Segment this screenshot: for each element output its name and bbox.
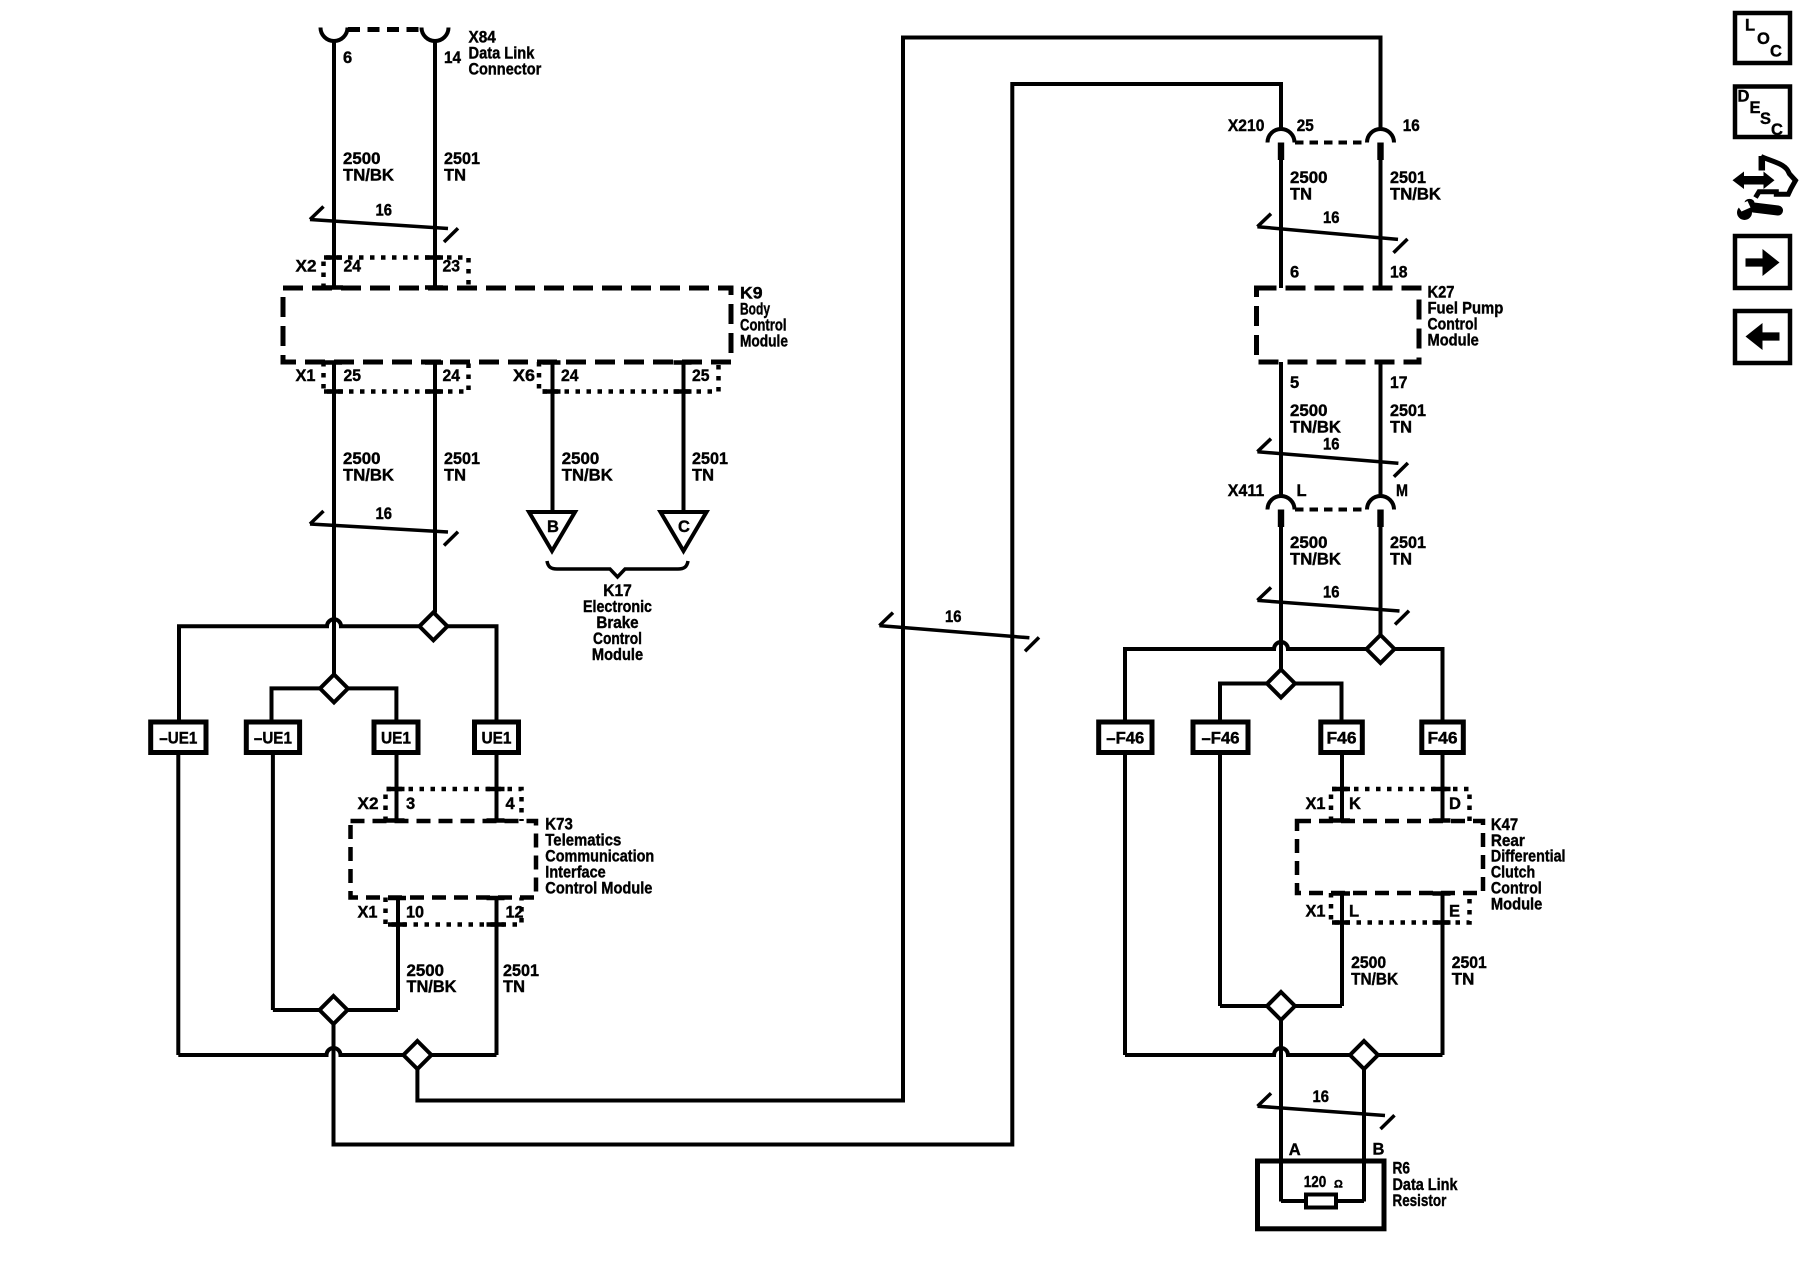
- svg-text:TN/BK: TN/BK: [1290, 419, 1341, 437]
- connector -UE1 box 1: [151, 722, 206, 753]
- wire 2501 TN from K73 X1 pin 12: [495, 898, 499, 1056]
- twisted pair symbol 16 middle: [879, 626, 1029, 638]
- wire 2500 TN/BK from K27 pin 5 to X411 L: [1279, 362, 1283, 496]
- svg-text:O: O: [1757, 30, 1770, 48]
- wire 2500 TN/BK from K9 X1 pin 25 to splice: [332, 362, 336, 675]
- module K47 Rear Differential Clutch Control Module dashed box: [1297, 821, 1483, 893]
- splice diamond on 2501 TN: [1350, 1041, 1378, 1069]
- svg-text:–UE1: –UE1: [254, 730, 292, 748]
- wire 2500 TN/BK from K47 pin L: [1340, 893, 1344, 1006]
- svg-text:X411: X411: [1228, 482, 1265, 500]
- svg-text:2501: 2501: [1452, 954, 1487, 972]
- wire 2501 TN from K47 pin E: [1441, 893, 1445, 1055]
- connector X210 arc pin 25: [1268, 129, 1295, 143]
- svg-text:120: 120: [1304, 1174, 1327, 1191]
- svg-text:–UE1: –UE1: [159, 730, 197, 748]
- connector F46 box 4: [1422, 722, 1464, 753]
- svg-text:E: E: [1750, 99, 1761, 117]
- svg-text:3: 3: [406, 795, 415, 813]
- splice diamond on 2500 TN/BK: [320, 996, 348, 1024]
- svg-text:E: E: [1449, 903, 1460, 921]
- module K73 Telematics Communication Interface Control Module dashed box: [351, 821, 537, 898]
- connector UE1 box 3: [374, 722, 418, 753]
- svg-text:X1: X1: [1306, 903, 1326, 921]
- svg-text:25: 25: [344, 367, 362, 385]
- svg-text:2500: 2500: [1290, 402, 1328, 420]
- svg-text:C: C: [1771, 121, 1783, 139]
- connector X411 arc pin L: [1268, 496, 1295, 510]
- wire from F46 box3 to K47 X1 pin K: [1340, 753, 1344, 822]
- svg-text:UE1: UE1: [381, 730, 411, 748]
- svg-text:24: 24: [443, 367, 461, 385]
- svg-text:25: 25: [692, 367, 710, 385]
- connector X210 dashed body: [1295, 141, 1367, 145]
- svg-text:24: 24: [561, 367, 579, 385]
- wire bus 2500 TN/BK lower horizontal: [273, 1008, 398, 1012]
- connector -F46 box 1: [1099, 722, 1152, 753]
- wire 2501 TN from K9 X6 pin 25 to K17 C: [682, 362, 686, 512]
- svg-text:X1: X1: [358, 904, 378, 922]
- connector X1 upper pin box of K47: [1331, 789, 1470, 821]
- svg-text:16: 16: [1323, 436, 1340, 454]
- twisted pair symbol 16 lower left: [310, 524, 448, 532]
- svg-text:X6: X6: [513, 367, 535, 385]
- svg-text:R6: R6: [1393, 1160, 1411, 1178]
- svg-text:–F46: –F46: [1106, 730, 1144, 748]
- svg-text:2500: 2500: [343, 150, 381, 168]
- wire from -F46 box1 down: [1123, 753, 1127, 1056]
- twisted pair symbol 16 right middle: [1257, 452, 1398, 464]
- svg-text:Control Module: Control Module: [545, 880, 652, 898]
- svg-text:TN/BK: TN/BK: [562, 467, 613, 485]
- svg-text:D: D: [1449, 795, 1461, 813]
- svg-text:X2: X2: [296, 258, 317, 276]
- svg-text:TN: TN: [444, 467, 466, 485]
- svg-text:S: S: [1760, 110, 1771, 128]
- svg-text:TN/BK: TN/BK: [343, 167, 394, 185]
- svg-text:TN/BK: TN/BK: [407, 978, 457, 996]
- svg-text:2501: 2501: [1390, 534, 1426, 552]
- svg-text:Module: Module: [1428, 332, 1479, 350]
- svg-text:2500: 2500: [1351, 954, 1386, 972]
- twisted pair symbol 16 right upper: [1257, 227, 1398, 240]
- connector UE1 box 4: [475, 722, 519, 753]
- wire 2501 TN trunk down and right: [417, 38, 1380, 1101]
- wire 2501 TN from K27 pin 17 to X411 M: [1379, 362, 1383, 496]
- wire from F46 box4 to K47 X1 pin D: [1441, 753, 1445, 822]
- svg-text:C: C: [1770, 43, 1782, 61]
- svg-text:TN/BK: TN/BK: [1351, 971, 1398, 989]
- connector X411 dashed body: [1295, 508, 1367, 512]
- svg-text:2500: 2500: [1290, 534, 1328, 552]
- svg-text:F46: F46: [1327, 730, 1357, 748]
- wire from -UE1 box1 down: [176, 753, 180, 1056]
- connector X2 pin box of K73: [386, 789, 522, 821]
- wire bus 2500 TN/BK right horizontal: [1220, 684, 1342, 723]
- connector F46 box 3: [1321, 722, 1363, 753]
- svg-text:Connector: Connector: [469, 61, 542, 79]
- svg-text:TN/BK: TN/BK: [1390, 186, 1441, 204]
- splice diamond on 2501 TN: [1367, 635, 1395, 663]
- svg-text:2501: 2501: [1390, 169, 1426, 187]
- module K27 Fuel Pump Control Module dashed box: [1257, 288, 1420, 362]
- wire bus 2500 TN/BK lower right horizontal: [1220, 1004, 1342, 1008]
- svg-text:TN: TN: [1290, 186, 1312, 204]
- wire from -F46 box2 down: [1218, 753, 1222, 1007]
- svg-text:6: 6: [1290, 264, 1299, 282]
- svg-text:2500: 2500: [562, 450, 600, 468]
- splice diamond on 2500 TN/BK: [320, 674, 348, 702]
- svg-text:TN/BK: TN/BK: [343, 467, 394, 485]
- wire 2500 TN from X210 pin 25 to K27 pin 6: [1279, 160, 1283, 288]
- icon LOC box: [1735, 13, 1790, 63]
- svg-text:L: L: [1349, 903, 1359, 921]
- connector X210 terminal tick pin 16: [1377, 143, 1383, 161]
- wire 2500 TN/BK to R6 pin A: [1279, 1020, 1283, 1202]
- wire 2501 TN from K9 X1 pin 24 to splice: [433, 362, 437, 613]
- brace for K17: [547, 561, 688, 577]
- svg-text:Ω: Ω: [1334, 1179, 1343, 1191]
- svg-text:2501: 2501: [1390, 402, 1426, 420]
- wire from UE1 box4 to K73 X2 pin 4: [495, 753, 499, 822]
- svg-text:L: L: [1297, 482, 1307, 500]
- svg-text:14: 14: [444, 49, 462, 67]
- svg-text:TN/BK: TN/BK: [1290, 551, 1341, 569]
- svg-text:5: 5: [1290, 374, 1299, 392]
- svg-text:TN: TN: [1390, 551, 1412, 569]
- svg-text:TN: TN: [1390, 419, 1412, 437]
- svg-text:17: 17: [1390, 374, 1408, 392]
- connector X84 dashed body: [348, 27, 421, 32]
- svg-text:Module: Module: [740, 333, 788, 351]
- connector X411 arc pin M: [1367, 496, 1394, 510]
- svg-text:K: K: [1349, 795, 1361, 813]
- wire from UE1 box3 to K73 X2 pin 3: [395, 753, 399, 822]
- svg-text:6: 6: [343, 49, 352, 67]
- connector X411 terminal tick pin M: [1377, 510, 1383, 528]
- svg-text:23: 23: [443, 258, 461, 276]
- wire 2500 TN/BK from K73 X1 pin 10: [396, 898, 400, 1011]
- wire 2501 TN from X411 M to splice: [1379, 527, 1383, 635]
- connector X84 cup pin 14: [422, 28, 449, 41]
- svg-text:16: 16: [945, 608, 962, 626]
- svg-text:2501: 2501: [444, 150, 480, 168]
- connector X210 terminal tick pin 25: [1278, 143, 1284, 161]
- svg-text:4: 4: [506, 795, 516, 813]
- svg-text:16: 16: [1323, 209, 1340, 227]
- wire 2501 TN from X84 pin 14 to K9 X2 pin 23: [433, 41, 437, 288]
- connector X84 cup pin 6: [321, 28, 348, 42]
- connector X411 terminal tick pin L: [1278, 510, 1284, 528]
- icon arrow left box: [1735, 311, 1790, 363]
- svg-text:2501: 2501: [444, 450, 480, 468]
- svg-text:Module: Module: [592, 646, 643, 664]
- wire bus 2500 TN/BK horizontal: [272, 688, 397, 722]
- splice diamond on 2500 TN/BK: [1267, 992, 1295, 1020]
- twisted pair symbol 16 right lower: [1257, 600, 1399, 611]
- svg-text:X1: X1: [1306, 795, 1326, 813]
- svg-text:–F46: –F46: [1202, 730, 1240, 748]
- terminal B triangle: [529, 512, 575, 551]
- svg-text:B: B: [1373, 1141, 1385, 1159]
- wire 2500 TN/BK from X411 L to splice: [1279, 527, 1283, 670]
- svg-text:B: B: [547, 518, 559, 536]
- svg-text:D: D: [1738, 88, 1750, 106]
- icon vehicle with double arrow and wrench: [1733, 172, 1775, 190]
- icon arrow right box: [1735, 236, 1790, 288]
- connector X1 pin box of K73: [386, 898, 522, 925]
- svg-text:X2: X2: [358, 795, 379, 813]
- wire 2501 TN/BK from X210 pin 16 to K27 pin 18: [1379, 160, 1383, 288]
- svg-text:F46: F46: [1428, 730, 1458, 748]
- wire bus 2501 TN lower right horizontal with hop: [1125, 1048, 1443, 1055]
- svg-text:TN: TN: [1452, 971, 1475, 989]
- twisted pair symbol 16 upper left: [310, 220, 448, 229]
- svg-text:2500: 2500: [343, 450, 381, 468]
- svg-text:2501: 2501: [692, 450, 728, 468]
- svg-text:16: 16: [1313, 1088, 1330, 1106]
- wire 2500 TN/BK trunk down and right: [334, 84, 1282, 1145]
- svg-text:A: A: [1289, 1141, 1301, 1159]
- svg-text:12: 12: [506, 904, 524, 922]
- svg-text:25: 25: [1297, 117, 1314, 135]
- svg-text:M: M: [1396, 482, 1408, 500]
- svg-text:16: 16: [376, 202, 393, 220]
- svg-text:X210: X210: [1228, 117, 1265, 135]
- svg-text:Resistor: Resistor: [1393, 1192, 1447, 1210]
- svg-text:X1: X1: [296, 367, 316, 385]
- svg-text:L: L: [1745, 17, 1755, 35]
- svg-text:16: 16: [1323, 584, 1340, 602]
- svg-text:TN: TN: [444, 167, 466, 185]
- module K9 Body Control Module dashed box: [283, 288, 731, 362]
- resistor R6 Data Link Resistor box: [1258, 1161, 1385, 1229]
- svg-text:10: 10: [406, 904, 424, 922]
- svg-text:16: 16: [376, 505, 393, 523]
- wire bus 2501 TN horizontal with hop over 2500: [179, 619, 497, 722]
- wire 2500 TN/BK from X84 pin 6 to K9 X2 pin 24: [332, 41, 336, 288]
- connector -UE1 box 2: [246, 722, 299, 753]
- svg-text:16: 16: [1403, 117, 1420, 135]
- connector X2 pin box of K9: [324, 258, 469, 289]
- svg-text:2500: 2500: [1290, 169, 1328, 187]
- connector X1 lower pin box of K47: [1331, 893, 1470, 923]
- svg-text:18: 18: [1390, 264, 1408, 282]
- splice diamond on 2501 TN: [403, 1041, 431, 1069]
- wire 2501 TN to R6 pin B: [1362, 1069, 1366, 1202]
- svg-text:TN: TN: [503, 978, 525, 996]
- wire 2500 TN/BK from K9 X6 pin 24 to K17 B: [551, 362, 555, 512]
- splice diamond on 2501 TN: [419, 612, 447, 640]
- connector X6 pin box of K9: [539, 362, 719, 392]
- splice diamond on 2500 TN/BK: [1267, 670, 1295, 698]
- connector -F46 box 2: [1193, 722, 1248, 753]
- wire bus 2501 TN right horizontal with hop: [1125, 642, 1443, 722]
- terminal C triangle: [661, 512, 707, 551]
- svg-text:24: 24: [344, 258, 362, 276]
- connector X1 pin box of K9: [324, 362, 469, 392]
- wire bus 2501 TN lower horizontal with hop: [178, 1048, 496, 1055]
- wire from -UE1 box2 down: [271, 753, 275, 1011]
- icon DESC box: [1735, 87, 1790, 138]
- twisted pair symbol 16 bottom right: [1258, 1106, 1386, 1115]
- svg-text:Module: Module: [1491, 896, 1542, 914]
- connector X210 arc pin 16: [1367, 129, 1394, 143]
- svg-text:C: C: [678, 518, 690, 536]
- svg-text:TN: TN: [692, 467, 714, 485]
- resistor element 120 ohm: [1306, 1195, 1336, 1208]
- svg-text:UE1: UE1: [482, 730, 512, 748]
